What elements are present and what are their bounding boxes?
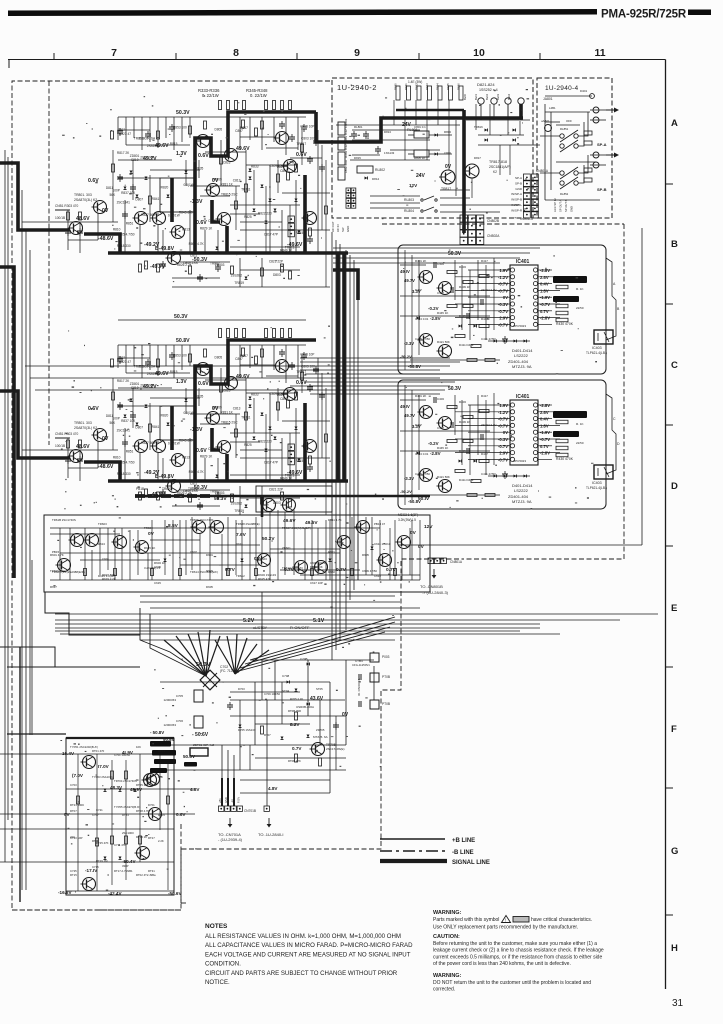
svg-text:L802 6uH: L802 6uH bbox=[344, 160, 348, 173]
resistor bbox=[309, 228, 312, 236]
-50.6V dashed corner bbox=[181, 902, 188, 904]
resistor bbox=[289, 271, 292, 279]
wire bbox=[261, 258, 263, 287]
resistor bbox=[149, 494, 158, 497]
connector pin bbox=[351, 193, 356, 198]
transistor TR817 bbox=[439, 170, 455, 184]
resistor bbox=[111, 836, 114, 844]
wire bbox=[230, 204, 300, 206]
svg-text:11: 11 bbox=[594, 47, 605, 59]
connector pin bbox=[351, 204, 356, 209]
transistor bbox=[293, 561, 308, 574]
transistor bbox=[69, 534, 84, 547]
svg-text:PB1B: PB1B bbox=[136, 487, 144, 491]
svg-text:-B1: -B1 bbox=[230, 798, 234, 803]
wire bbox=[300, 361, 460, 363]
speaker relay contacts B bbox=[560, 171, 564, 175]
wire bbox=[300, 369, 440, 371]
svg-text:ZDT01 IGP-4u8: ZDT01 IGP-4u8 bbox=[193, 743, 215, 747]
wire bbox=[418, 260, 420, 355]
svg-text:RT31: RT31 bbox=[148, 869, 155, 873]
capacitor C407 bbox=[480, 299, 482, 305]
wire bbox=[59, 528, 61, 580]
wire bbox=[185, 520, 187, 575]
IC pin right bbox=[533, 316, 537, 320]
component bbox=[338, 122, 345, 135]
svg-text:GND: GND bbox=[346, 226, 350, 232]
resistor bbox=[67, 212, 70, 220]
wire bbox=[485, 265, 487, 340]
wire bbox=[204, 230, 206, 253]
wire bbox=[393, 100, 395, 125]
wire bbox=[240, 136, 275, 138]
resistor bbox=[157, 131, 160, 139]
wire bbox=[336, 124, 460, 126]
svg-text:R705 2.2K: R705 2.2K bbox=[290, 697, 303, 701]
svg-text:R605: R605 bbox=[362, 553, 369, 557]
svg-text:UPC5023: UPC5023 bbox=[513, 324, 526, 328]
capacitor bbox=[307, 238, 313, 240]
wire bbox=[440, 204, 520, 206]
svg-text:Parts marked with this symbol: Parts marked with this symbol bbox=[433, 917, 499, 923]
svg-text:50.2V: 50.2V bbox=[262, 536, 275, 542]
connector pin bbox=[225, 806, 230, 811]
transistor bbox=[147, 808, 162, 821]
wire bbox=[230, 691, 300, 693]
svg-text:ZD705: ZD705 bbox=[316, 728, 325, 732]
svg-text:RT29 1M: RT29 1M bbox=[96, 859, 108, 863]
svg-text:CN802B: CN802B bbox=[487, 219, 499, 223]
wire bbox=[67, 210, 69, 250]
svg-text:(FC. 71250V): (FC. 71250V) bbox=[220, 669, 239, 673]
wire bbox=[118, 177, 160, 179]
small signal section box bbox=[44, 515, 430, 592]
svg-text:-0.7V: -0.7V bbox=[540, 302, 550, 307]
svg-text:C70B: C70B bbox=[300, 657, 308, 661]
connector pin bbox=[532, 193, 539, 200]
svg-text:C819: C819 bbox=[131, 158, 139, 162]
left wires bbox=[400, 264, 426, 266]
svg-text:C617 10P: C617 10P bbox=[310, 581, 323, 585]
wire bbox=[137, 530, 139, 575]
tone amp IC402 block bbox=[400, 385, 613, 505]
diode C708 bbox=[287, 681, 290, 684]
wire bbox=[261, 592, 263, 655]
resistor bbox=[287, 172, 290, 180]
svg-text:CN701B: CN701B bbox=[244, 809, 256, 813]
wire bbox=[429, 153, 452, 155]
wire bbox=[468, 283, 510, 285]
svg-text:R660: R660 bbox=[328, 570, 335, 574]
black pill labels phono bbox=[150, 741, 171, 747]
diode bbox=[241, 559, 244, 562]
wire bbox=[437, 100, 439, 125]
svg-text:2SC1841: 2SC1841 bbox=[117, 201, 131, 205]
wire bbox=[139, 225, 141, 253]
svg-text:R812: R812 bbox=[154, 212, 162, 216]
bridge rectifier D701 bbox=[200, 670, 220, 690]
svg-text:GND: GND bbox=[224, 797, 228, 803]
wire bbox=[339, 549, 341, 580]
wire bbox=[50, 533, 120, 535]
wire bbox=[240, 229, 330, 231]
transistor bbox=[56, 559, 71, 572]
wire bbox=[261, 117, 263, 150]
svg-text:-42.4V: -42.4V bbox=[108, 891, 122, 896]
connector pin bbox=[428, 558, 434, 564]
svg-text:PT0B: PT0B bbox=[382, 702, 390, 706]
wire bbox=[157, 117, 159, 148]
wire bbox=[590, 119, 606, 121]
svg-text:CIRCUIT AND PARTS ARE SUBJECT: CIRCUIT AND PARTS ARE SUBJECT TO CHANGE … bbox=[205, 970, 398, 977]
row tick bbox=[666, 666, 674, 668]
svg-text:C305 4.7/50: C305 4.7/50 bbox=[117, 233, 135, 237]
phono wires bbox=[66, 753, 174, 755]
component bbox=[338, 167, 345, 180]
speaker small rects bbox=[584, 131, 592, 135]
svg-text:R805 1K: R805 1K bbox=[414, 156, 425, 160]
svg-text:CNB1 R303 470: CNB1 R303 470 bbox=[55, 204, 78, 208]
svg-text:OFF: OFF bbox=[566, 119, 572, 123]
svg-text:R613: R613 bbox=[98, 542, 105, 546]
svg-text:G: G bbox=[671, 846, 678, 857]
svg-text:-2.8V: -2.8V bbox=[540, 268, 550, 273]
svg-text:- 50.6V: - 50.6V bbox=[192, 732, 209, 738]
driver box bbox=[160, 178, 196, 212]
thick left page vertical bbox=[0, 267, 14, 578]
svg-text:R843: R843 bbox=[425, 83, 429, 90]
svg-text:4.8V: 4.8V bbox=[190, 787, 200, 792]
diode bbox=[245, 277, 248, 280]
capacitor bbox=[117, 130, 123, 132]
wire bbox=[440, 197, 470, 199]
resistor bbox=[151, 569, 154, 576]
resistor bbox=[189, 266, 192, 274]
speaker board 1U-2940-4 dashed box bbox=[537, 78, 612, 218]
svg-text:-B LINE: -B LINE bbox=[452, 850, 474, 856]
phono box top edge thick bbox=[66, 737, 174, 739]
wire bbox=[180, 261, 230, 263]
svg-text:D703: D703 bbox=[238, 687, 245, 691]
P.ON/OFF long wires bbox=[55, 623, 540, 625]
left lower vertical bbox=[19, 647, 21, 902]
svg-text:SP-B: SP-B bbox=[515, 181, 522, 185]
wire bbox=[389, 528, 391, 580]
wire bbox=[255, 517, 257, 580]
wire bbox=[538, 283, 552, 285]
svg-text:D411 D413: D411 D413 bbox=[459, 343, 474, 347]
fuse bbox=[593, 107, 599, 113]
wire bbox=[151, 520, 153, 580]
wire bbox=[117, 117, 119, 140]
svg-text:Bu00: Bu00 bbox=[463, 93, 467, 100]
wire bbox=[97, 213, 99, 240]
svg-text:R803: R803 bbox=[444, 130, 451, 134]
connector pin bbox=[524, 174, 531, 181]
svg-text:10: 10 bbox=[473, 47, 485, 59]
diode bbox=[261, 185, 264, 188]
wire bbox=[379, 520, 381, 580]
transistor bbox=[209, 521, 224, 534]
connector pin bbox=[346, 204, 351, 209]
connector pin bbox=[351, 188, 356, 193]
connector pin bbox=[532, 211, 539, 218]
wire bbox=[266, 700, 268, 806]
svg-text:TYP03 2SA1036: TYP03 2SA1036 bbox=[92, 775, 113, 779]
diode ST04 bbox=[295, 689, 298, 692]
wire bbox=[191, 517, 193, 570]
IC body bbox=[510, 265, 538, 330]
resistor R333-R336 bbox=[227, 101, 230, 110]
transistor bbox=[68, 222, 83, 235]
wire bbox=[173, 117, 175, 150]
wire bbox=[249, 745, 251, 770]
wire bbox=[475, 104, 477, 130]
svg-text:D811: D811 bbox=[106, 186, 114, 190]
connector pin bbox=[532, 199, 539, 206]
svg-text:D821-824: D821-824 bbox=[477, 82, 495, 87]
wire bbox=[331, 232, 333, 660]
svg-text:uA801: uA801 bbox=[541, 119, 550, 123]
svg-text:-2.8V: -2.8V bbox=[540, 316, 550, 321]
wire bbox=[281, 210, 283, 253]
wire bbox=[411, 255, 413, 365]
transistor bbox=[84, 534, 99, 547]
wire bbox=[261, 660, 263, 700]
svg-text:8: 8 bbox=[233, 47, 239, 59]
svg-text:..! (1U-2840-3): ..! (1U-2840-3) bbox=[422, 590, 449, 595]
wire bbox=[550, 112, 552, 190]
connector pin bbox=[468, 237, 475, 244]
wire bbox=[206, 636, 220, 676]
svg-text:JA801: JA801 bbox=[543, 97, 553, 101]
svg-text:0.5(1W): 0.5(1W) bbox=[183, 183, 194, 187]
resistor bbox=[84, 569, 87, 576]
connector pin bbox=[524, 180, 531, 187]
diode bbox=[136, 195, 139, 198]
svg-text:TR608 2SA988(E): TR608 2SA988(E) bbox=[236, 522, 260, 526]
capacitor bbox=[122, 213, 128, 215]
wire bbox=[335, 716, 337, 770]
wire bbox=[319, 700, 321, 745]
connector pin bbox=[441, 558, 447, 564]
phono section box bbox=[66, 738, 174, 895]
diode bbox=[514, 340, 517, 343]
svg-text:R823 47: R823 47 bbox=[119, 132, 131, 136]
svg-text:AC OUT: AC OUT bbox=[331, 221, 335, 232]
svg-text:-50.8V: -50.8V bbox=[408, 364, 421, 369]
relay coil circles 2940-4 bbox=[545, 125, 552, 132]
wire bbox=[140, 608, 206, 676]
diode bbox=[485, 139, 488, 142]
svg-text:0.7V: 0.7V bbox=[386, 567, 397, 573]
IC pin right bbox=[533, 295, 537, 299]
svg-text:ST04: ST04 bbox=[282, 689, 290, 693]
wire bbox=[69, 528, 71, 580]
svg-text:A: A bbox=[671, 118, 678, 129]
diode D405 bbox=[417, 317, 420, 320]
svg-text:RT05 10K: RT05 10K bbox=[136, 783, 149, 787]
connector pin bbox=[460, 237, 467, 244]
wire bbox=[227, 517, 229, 575]
dashed section edge bbox=[180, 824, 182, 903]
svg-text:12000/63: 12000/63 bbox=[163, 698, 176, 702]
svg-text:R833: R833 bbox=[251, 165, 259, 169]
wire bbox=[333, 252, 530, 254]
transistor bbox=[112, 536, 127, 549]
photocoupler IC403 bbox=[594, 330, 613, 344]
diode D812 bbox=[365, 177, 368, 180]
connector pin bbox=[476, 215, 483, 222]
resistor bbox=[556, 285, 568, 289]
wire bbox=[245, 622, 395, 664]
svg-text:22/50: 22/50 bbox=[576, 306, 584, 310]
wire bbox=[239, 700, 241, 770]
svg-text:D605: D605 bbox=[206, 585, 213, 589]
transistor bbox=[135, 847, 150, 860]
wire bbox=[189, 210, 191, 253]
connector single bbox=[264, 806, 269, 811]
wire bbox=[241, 520, 243, 580]
svg-text:TR816: TR816 bbox=[474, 125, 483, 129]
svg-text:0.6V: 0.6V bbox=[196, 220, 207, 226]
svg-text:C609 47/50: C609 47/50 bbox=[362, 569, 377, 573]
svg-text:50.3V: 50.3V bbox=[448, 251, 462, 257]
svg-text:TO..CN801B: TO..CN801B bbox=[420, 584, 443, 589]
transistor bbox=[151, 212, 166, 225]
transistor bbox=[256, 554, 271, 567]
resistor bbox=[479, 325, 489, 328]
svg-text:R817 2K: R817 2K bbox=[117, 151, 130, 155]
svg-text:R825: R825 bbox=[244, 215, 252, 219]
diode bbox=[298, 231, 301, 234]
IC pin left bbox=[510, 302, 514, 306]
svg-text:IN/SP-A: IN/SP-A bbox=[511, 192, 522, 196]
resistor bbox=[255, 569, 258, 576]
svg-text:TR811: TR811 bbox=[241, 188, 251, 192]
resistor R333-R336 bbox=[219, 101, 222, 110]
resistor bbox=[447, 271, 457, 274]
wire bbox=[250, 659, 330, 661]
thick jog to bus bbox=[84, 234, 120, 253]
diode bbox=[371, 547, 374, 550]
thick staircase bbox=[195, 112, 316, 253]
wire bbox=[455, 120, 457, 196]
capacitor bbox=[319, 166, 325, 168]
svg-text:TR801. 303: TR801. 303 bbox=[74, 193, 92, 197]
transistor bbox=[223, 149, 238, 162]
diode D401 bbox=[459, 325, 462, 328]
svg-text:R619 2.2K: R619 2.2K bbox=[102, 577, 116, 581]
fuse bbox=[593, 152, 599, 158]
wire bbox=[325, 520, 327, 580]
svg-text:100P: 100P bbox=[112, 189, 119, 193]
connector pin bbox=[532, 186, 539, 193]
resistor R345-R348 bbox=[289, 101, 292, 110]
wire bbox=[310, 393, 440, 395]
transistor bbox=[81, 756, 96, 769]
svg-text:- (1U-2939-4): - (1U-2939-4) bbox=[218, 837, 243, 842]
svg-text:!: ! bbox=[505, 918, 506, 923]
relay coil bbox=[491, 98, 497, 104]
connector pin bbox=[351, 198, 356, 203]
wire bbox=[165, 117, 167, 138]
transistor bbox=[355, 521, 370, 534]
diode C70B bbox=[307, 663, 310, 666]
svg-text:R822 220: R822 220 bbox=[258, 212, 272, 216]
transistor bbox=[336, 536, 351, 549]
transistor TR818 bbox=[463, 164, 479, 178]
svg-text:RL802: RL802 bbox=[375, 168, 385, 172]
resistor RT0C bbox=[295, 754, 298, 762]
wire bbox=[176, 636, 206, 676]
resistor R345-R348 bbox=[273, 101, 276, 110]
svg-text:49.9V: 49.9V bbox=[130, 787, 143, 792]
wire bbox=[448, 100, 450, 170]
svg-text:R707: R707 bbox=[264, 733, 271, 737]
svg-text:IC403: IC403 bbox=[592, 346, 602, 350]
wire bbox=[538, 289, 560, 291]
svg-text:0.7V: 0.7V bbox=[540, 309, 549, 314]
top title bar left segment bbox=[8, 9, 597, 16]
wire bbox=[468, 310, 510, 312]
svg-text:2.9V: 2.9V bbox=[499, 316, 508, 321]
IC pin right bbox=[533, 322, 537, 326]
svg-text:R409 1K: R409 1K bbox=[459, 285, 470, 289]
wire bbox=[335, 240, 337, 650]
resistor relay row bbox=[449, 86, 453, 100]
wire bbox=[150, 614, 206, 676]
wire bbox=[159, 754, 161, 830]
svg-text:RT21 100K: RT21 100K bbox=[70, 803, 84, 807]
svg-text:TR605 2SC1740S: TR605 2SC1740S bbox=[190, 518, 214, 522]
diode bbox=[164, 559, 167, 562]
connector pin bbox=[524, 211, 531, 218]
wire bbox=[408, 153, 414, 155]
wire bbox=[538, 296, 552, 298]
wire bbox=[261, 517, 263, 553]
svg-text:CN801LA: CN801LA bbox=[520, 217, 533, 221]
wire bbox=[480, 104, 482, 120]
dashed inner vertical bbox=[48, 81, 50, 445]
thick B- bus bbox=[108, 251, 348, 255]
wire bbox=[293, 510, 295, 575]
resistor relay row bbox=[417, 86, 421, 100]
wires row D bbox=[50, 527, 380, 529]
svg-text:WARNING:: WARNING: bbox=[433, 910, 462, 916]
svg-text:1SS133: 1SS133 bbox=[384, 151, 395, 155]
channel 2 extra top rail bbox=[118, 319, 306, 321]
wire bbox=[235, 634, 237, 674]
resistor bbox=[111, 131, 114, 139]
svg-text:-1.2V: -1.2V bbox=[498, 275, 508, 280]
svg-text:C607: C607 bbox=[190, 550, 197, 554]
relay RL802 bbox=[357, 166, 373, 173]
wire top rail bbox=[118, 116, 306, 118]
resistor RT0B bbox=[295, 712, 298, 720]
svg-text:ACC SP IN: ACC SP IN bbox=[553, 199, 557, 212]
svg-text:Bu02: Bu02 bbox=[485, 93, 489, 100]
transistor bbox=[377, 554, 392, 567]
transistor on elbow bbox=[216, 213, 231, 226]
wire bbox=[217, 230, 219, 253]
transistor bbox=[81, 878, 96, 891]
svg-text:R835: R835 bbox=[196, 166, 204, 170]
wire bbox=[404, 100, 406, 160]
svg-text:R815: R815 bbox=[170, 142, 178, 146]
svg-text:Before returning the unit to t: Before returning the unit to the custome… bbox=[433, 941, 597, 947]
svg-text:-0.3V: -0.3V bbox=[498, 302, 508, 307]
